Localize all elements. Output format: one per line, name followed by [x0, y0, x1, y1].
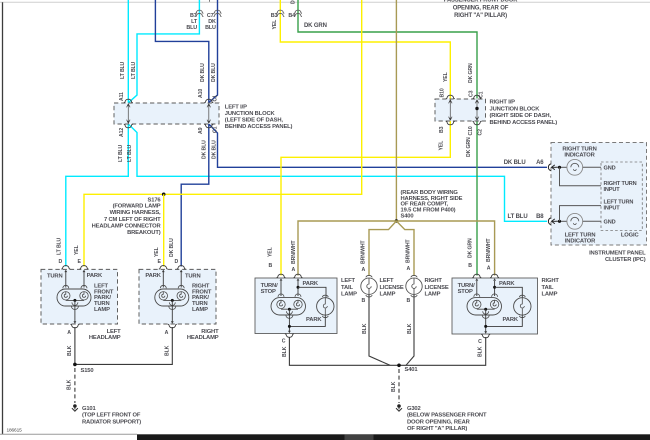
svg-text:RIGHT ''A'' PILLAR): RIGHT ''A'' PILLAR)	[454, 13, 507, 19]
right license lamp bulb	[406, 278, 422, 294]
svg-text:DOOR OPENING, REAR: DOOR OPENING, REAR	[407, 419, 471, 425]
svg-text:PASSENGER FRONT DOOR: PASSENGER FRONT DOOR	[444, 0, 519, 3]
right tail entry arcs	[474, 294, 480, 297]
svg-text:LT BLU: LT BLU	[118, 144, 124, 162]
left license exit arc	[366, 295, 372, 297]
svg-text:A: A	[487, 266, 491, 272]
wire BLK left tail to S401	[289, 337, 399, 365]
svg-text:B8: B8	[536, 214, 544, 220]
svg-text:HEADLAMP: HEADLAMP	[89, 335, 121, 341]
wire BRN/WHT S400 to left license lamp	[369, 221, 396, 276]
svg-text:PARK: PARK	[303, 281, 319, 287]
svg-text:S176: S176	[148, 197, 162, 203]
svg-text:B: B	[468, 263, 472, 269]
right junction block bus bar B10-B3	[449, 101, 451, 119]
connector B7	[195, 10, 203, 16]
svg-text:(BELOW PASSENGER FRONT: (BELOW PASSENGER FRONT	[407, 413, 487, 419]
svg-text:BRN/WHT: BRN/WHT	[291, 240, 297, 264]
left license entry arc	[366, 275, 372, 277]
svg-text:BLK: BLK	[67, 345, 73, 356]
right front lamp ground lead	[171, 300, 173, 322]
left junction block bus bar A11-A12	[127, 105, 129, 122]
svg-text:A: A	[67, 330, 71, 336]
pin socket A right front lamp	[168, 324, 177, 328]
left tail base arcs	[286, 311, 292, 314]
left tail turn lead	[280, 281, 282, 296]
svg-text:CLUSTER (IPC): CLUSTER (IPC)	[605, 257, 646, 263]
svg-text:LEFT: LEFT	[341, 278, 355, 284]
splice S401 dot	[397, 364, 401, 368]
left tail park branch to park bulb	[298, 287, 326, 297]
svg-text:C3: C3	[469, 90, 475, 97]
svg-text:STOP: STOP	[261, 289, 276, 295]
IPC pin K right turn	[548, 164, 550, 171]
svg-text:A12: A12	[119, 128, 125, 137]
right front lamp base arcs	[169, 302, 175, 305]
svg-text:BEHIND ACCESS PANEL): BEHIND ACCESS PANEL)	[225, 124, 293, 130]
svg-text:B10: B10	[440, 88, 446, 97]
wire DK BLU from connector C7	[209, 0, 218, 103]
splice S176 dot	[162, 193, 166, 197]
left turn indicator feed	[556, 220, 567, 222]
svg-text:PARK: PARK	[87, 273, 103, 279]
left front lamp base arcs	[72, 302, 78, 305]
svg-text:LEFT I/P: LEFT I/P	[225, 105, 247, 111]
svg-text:DK BLU: DK BLU	[212, 140, 218, 159]
left front lamp common link	[66, 299, 84, 301]
wire BRN/WHT S400 to right tail park	[396, 221, 494, 276]
pin socket C10	[473, 121, 482, 125]
svg-text:TURN: TURN	[47, 274, 63, 280]
svg-text:YEL: YEL	[439, 140, 445, 151]
wire YEL from top through connector B3 to right junction block	[280, 0, 450, 99]
right tail park branch to park bulb	[495, 287, 523, 297]
svg-text:LAMP: LAMP	[425, 292, 441, 298]
pin socket A10	[204, 99, 213, 103]
wire BLK left headlamp ground	[74, 327, 76, 364]
left turn feed dot	[558, 220, 561, 223]
left tail ground lead	[288, 309, 290, 331]
svg-text:A: A	[362, 267, 366, 273]
svg-text:DK GRN: DK GRN	[304, 23, 327, 29]
svg-text:BREAKOUT): BREAKOUT)	[127, 230, 161, 236]
svg-text:BRN/WHT: BRN/WHT	[486, 238, 492, 262]
pin socket C left tail	[285, 334, 294, 338]
pin socket A11	[124, 99, 133, 103]
wire BLK right license ground	[406, 295, 414, 366]
ground G302	[397, 404, 401, 408]
wire LT BLU from connector B7 jog	[128, 0, 199, 103]
right turn input branch	[560, 167, 602, 185]
left I/P junction block box	[114, 103, 219, 124]
svg-text:BLK: BLK	[362, 323, 368, 334]
svg-text:S401: S401	[405, 367, 419, 373]
svg-text:INDICATOR: INDICATOR	[564, 153, 595, 159]
svg-text:TURN: TURN	[185, 274, 201, 280]
svg-text:GND: GND	[604, 220, 616, 226]
tiny mark above C7	[209, 0, 211, 2]
right tail common dot	[484, 308, 487, 311]
wire DK GRN from top via connector B4 to right junction block	[298, 0, 477, 99]
svg-text:RIGHT I/P: RIGHT I/P	[490, 99, 516, 105]
svg-text:INPUT: INPUT	[604, 187, 621, 193]
svg-text:(FORWARD LAMP: (FORWARD LAMP	[113, 204, 161, 210]
bottom bar thumb	[345, 435, 374, 440]
svg-text:JUNCTION BLOCK: JUNCTION BLOCK	[490, 106, 541, 112]
wire BLK right tail to S401	[399, 337, 486, 365]
svg-text:LT BLU: LT BLU	[120, 61, 126, 79]
left front lamp ground lead	[74, 300, 76, 322]
left tail filament 1	[277, 300, 285, 308]
wire YEL pin B3 to left tail lamp	[281, 121, 450, 276]
wire BLK right headlamp ground	[75, 327, 172, 364]
svg-text:YEL: YEL	[443, 71, 449, 82]
svg-text:C2: C2	[478, 129, 484, 136]
wire YEL park feed from top to S176 run	[84, 0, 362, 267]
left tail lamp box	[255, 278, 337, 334]
svg-text:C1: C1	[213, 95, 219, 102]
left front lamp common dot	[73, 299, 76, 302]
svg-text:B: B	[362, 298, 366, 304]
svg-text:LT BLU: LT BLU	[127, 144, 133, 162]
pin socket E left front lamp	[80, 266, 89, 270]
left front lamp wires to bulb	[65, 272, 67, 288]
svg-text:S400: S400	[401, 214, 414, 220]
svg-text:HEADLAMP CONNECTOR: HEADLAMP CONNECTOR	[92, 223, 162, 229]
wire BLK S150 to G101 dashed	[74, 368, 76, 403]
splice S150 dot	[73, 363, 77, 367]
right tail park bulb	[514, 298, 531, 315]
svg-text:RADIATOR SUPPORT): RADIATOR SUPPORT)	[82, 419, 141, 425]
svg-text:B: B	[407, 298, 411, 304]
right tail lamp box	[452, 278, 538, 334]
svg-text:LOGIC: LOGIC	[621, 232, 640, 238]
svg-text:PARK: PARK	[145, 273, 161, 279]
svg-text:LAMP: LAMP	[542, 292, 558, 298]
wire BLK left license ground	[369, 295, 390, 366]
left turn input branch	[560, 206, 602, 222]
svg-text:DK BLU: DK BLU	[200, 63, 206, 82]
svg-text:PARK: PARK	[503, 317, 519, 323]
pin socket A12	[124, 124, 133, 128]
svg-text:YEL: YEL	[272, 19, 278, 30]
svg-text:186615: 186615	[7, 428, 23, 434]
left front park/turn lamp box	[41, 269, 118, 324]
left front lamp filament 1	[62, 292, 70, 300]
right front lamp filament 2	[177, 292, 185, 300]
svg-text:LT BLU: LT BLU	[131, 61, 137, 79]
svg-text:B: B	[269, 263, 273, 269]
left tail common link	[281, 308, 298, 310]
left tail bulb stadium	[271, 298, 306, 315]
svg-text:LAMP: LAMP	[341, 292, 357, 298]
left front lamp filament 2	[80, 292, 88, 300]
svg-text:STOP: STOP	[458, 289, 473, 295]
svg-text:INPUT: INPUT	[604, 206, 621, 212]
wire BLK S401 to G302 dashed	[398, 369, 400, 403]
pin socket B left tail	[277, 274, 286, 278]
svg-text:C1: C1	[213, 126, 219, 133]
svg-text:BRN/WHT: BRN/WHT	[361, 240, 367, 264]
right turn indicator to GND	[583, 166, 601, 168]
right tail bulb stadium	[467, 298, 502, 315]
right tail common link	[477, 308, 495, 310]
pin socket D right front lamp	[177, 266, 186, 270]
wire LT BLU pin A12 to IPC left turn	[128, 124, 547, 221]
wire BRN/WHT S400 to left tail park	[298, 221, 396, 276]
svg-text:A9: A9	[198, 127, 204, 134]
left tail park lead with dot	[297, 281, 299, 296]
pin socket B right tail	[472, 274, 481, 278]
svg-text:LICENSE: LICENSE	[380, 285, 404, 291]
svg-text:LAMP: LAMP	[94, 307, 110, 313]
svg-text:A11: A11	[119, 92, 125, 101]
svg-text:PARK: PARK	[499, 281, 515, 287]
right junction block bus bar C3-C10 with dot	[476, 101, 478, 119]
svg-text:DK GRN: DK GRN	[468, 63, 474, 83]
svg-text:B3: B3	[271, 13, 278, 19]
right tail ground bus	[486, 315, 523, 326]
svg-text:YEL: YEL	[268, 246, 274, 257]
svg-text:(RIGHT SIDE OF DASH,: (RIGHT SIDE OF DASH,	[490, 113, 552, 119]
svg-text:BLK: BLK	[165, 345, 171, 356]
svg-text:DK GRN: DK GRN	[468, 238, 474, 258]
svg-text:BLK: BLK	[282, 346, 288, 357]
svg-text:LT BLU: LT BLU	[508, 214, 528, 220]
svg-text:JUNCTION BLOCK: JUNCTION BLOCK	[225, 111, 276, 117]
right turn indicator feed	[556, 166, 567, 168]
svg-text:D: D	[59, 259, 63, 265]
svg-text:7 CM LEFT OF RIGHT: 7 CM LEFT OF RIGHT	[104, 217, 161, 223]
left front lamp bulb stadium	[57, 289, 91, 306]
svg-text:(LEFT SIDE OF DASH,: (LEFT SIDE OF DASH,	[225, 117, 284, 123]
svg-text:BLK: BLK	[391, 381, 397, 392]
wire DK BLU pin A9 to right front lamp	[181, 124, 209, 267]
right license exit arc	[411, 295, 417, 297]
left tail filament 2	[294, 300, 302, 308]
right license entry arc	[411, 275, 417, 277]
right turn feed dot	[558, 166, 561, 169]
right front lamp bulb stadium	[155, 289, 189, 306]
svg-text:YEL: YEL	[74, 244, 80, 255]
right tail park lead with dot	[494, 281, 496, 296]
svg-text:RIGHT: RIGHT	[425, 278, 443, 284]
left front lamp entry arcs	[63, 285, 69, 288]
right tail ground lead	[485, 309, 487, 332]
svg-text:C: C	[478, 339, 482, 345]
pin socket A left tail	[294, 274, 303, 278]
wire DK BLU pin A9 to IPC right turn	[209, 124, 547, 167]
svg-text:LAMP: LAMP	[380, 292, 396, 298]
right I/P junction block box	[435, 99, 486, 121]
svg-text:PARK: PARK	[306, 317, 322, 323]
svg-text:BLU: BLU	[205, 25, 216, 31]
svg-text:OPENING, REAR OF: OPENING, REAR OF	[453, 6, 509, 12]
right tail base arcs	[483, 311, 489, 314]
connector B3	[276, 10, 284, 16]
svg-text:BLK: BLK	[407, 323, 413, 334]
wire YEL S176 to right front lamp park	[163, 194, 165, 266]
pin socket C right tail	[481, 334, 490, 338]
svg-text:D: D	[291, 0, 297, 4]
svg-text:LEFT: LEFT	[380, 278, 394, 284]
bottom bar left line	[0, 433, 137, 435]
wire DK GRN pin C10 to right tail lamp	[476, 121, 478, 276]
bottom bar track	[137, 434, 650, 440]
left turn indicator lamp	[567, 213, 583, 229]
svg-text:LAMP: LAMP	[192, 307, 208, 313]
wire DK BLU from top edge via elbow to pin A10	[155, 0, 208, 103]
svg-text:TAIL: TAIL	[341, 285, 353, 291]
left license lamp bulb	[361, 278, 377, 294]
svg-text:BLU: BLU	[186, 25, 197, 31]
left tail park bulb	[317, 298, 334, 315]
left tail common dot	[288, 308, 291, 311]
svg-text:S150: S150	[81, 368, 94, 374]
svg-text:GND: GND	[604, 166, 616, 172]
svg-text:A: A	[165, 330, 169, 336]
svg-text:OF RIGHT ''A'' PILLAR): OF RIGHT ''A'' PILLAR)	[407, 426, 467, 432]
right turn indicator lamp	[567, 159, 583, 175]
right front lamp entry arcs	[160, 285, 166, 288]
pin socket B10	[446, 95, 455, 99]
svg-text:BLK: BLK	[478, 346, 484, 357]
svg-text:TAIL: TAIL	[542, 285, 554, 291]
svg-text:C10: C10	[468, 126, 474, 135]
connector B4	[294, 10, 302, 16]
svg-text:DK BLU: DK BLU	[202, 140, 208, 159]
splice S400 dot	[395, 219, 399, 223]
pin socket B3	[446, 121, 455, 125]
wire LT BLU from top edge to pin A11	[127, 0, 129, 103]
svg-text:LT BLU: LT BLU	[57, 237, 63, 255]
wire LT BLU pin A12 to left lamp	[66, 124, 129, 267]
svg-text:G101: G101	[82, 406, 97, 412]
pin socket D left front lamp	[61, 266, 70, 270]
right front park/turn lamp box	[139, 269, 216, 324]
svg-text:A10: A10	[198, 89, 204, 98]
svg-text:INDICATOR: INDICATOR	[565, 238, 596, 244]
svg-text:WIRING HARNESS,: WIRING HARNESS,	[110, 210, 161, 216]
svg-text:DK GRN: DK GRN	[466, 137, 472, 157]
svg-text:C: C	[282, 338, 286, 344]
svg-text:G302: G302	[407, 406, 421, 412]
pin socket A right tail	[490, 274, 499, 278]
left junction block bus bar A10-A9	[208, 105, 210, 122]
right front lamp wires to bulb	[162, 272, 164, 288]
svg-text:A: A	[407, 266, 411, 272]
svg-text:BLK: BLK	[67, 379, 73, 390]
svg-text:B3: B3	[439, 126, 445, 133]
left turn indicator to GND	[583, 220, 601, 222]
svg-text:BRN/WHT: BRN/WHT	[406, 239, 412, 263]
svg-text:B4: B4	[288, 13, 295, 19]
page left border line	[2, 2, 4, 434]
left tail ground bus	[289, 315, 325, 326]
right tail filament 2	[490, 300, 498, 308]
right tail turn lead	[476, 281, 478, 296]
pin socket A left front lamp	[70, 324, 79, 328]
ground G101	[73, 404, 77, 408]
pin socket E right front lamp	[159, 266, 168, 270]
instrument panel cluster box	[551, 143, 647, 246]
svg-text:YEL: YEL	[154, 246, 160, 257]
pin socket A9	[204, 124, 213, 128]
svg-text:A6: A6	[536, 160, 544, 166]
right front lamp common dot	[171, 299, 174, 302]
svg-text:RIGHT: RIGHT	[542, 278, 560, 284]
pin socket C3	[473, 95, 482, 99]
svg-text:D: D	[175, 259, 179, 265]
IPC logic box	[601, 162, 642, 231]
left tail entry arcs	[278, 294, 284, 297]
svg-text:LICENSE: LICENSE	[425, 285, 449, 291]
svg-text:DK BLU: DK BLU	[504, 160, 526, 166]
wire BRN/WHT S400 to right license lamp	[396, 221, 414, 276]
svg-text:INSTRUMENT PANEL: INSTRUMENT PANEL	[589, 251, 646, 257]
svg-text:C1: C1	[479, 91, 485, 98]
svg-text:BEHIND ACCESS PANEL): BEHIND ACCESS PANEL)	[490, 120, 558, 126]
connector C7	[214, 10, 222, 16]
right front lamp common link	[163, 299, 181, 301]
svg-text:DK BLU: DK BLU	[169, 238, 175, 257]
svg-text:HEADLAMP: HEADLAMP	[187, 335, 219, 341]
wire BRN/WHT from top to S400	[395, 0, 397, 221]
svg-text:DK BLU: DK BLU	[211, 63, 217, 82]
right front lamp filament 1	[159, 292, 167, 300]
right tail filament 1	[473, 300, 481, 308]
svg-text:A: A	[292, 267, 296, 273]
page top border line	[0, 1, 650, 3]
svg-text:(TOP LEFT FRONT OF: (TOP LEFT FRONT OF	[82, 413, 141, 419]
IPC pin K left turn	[548, 218, 550, 225]
